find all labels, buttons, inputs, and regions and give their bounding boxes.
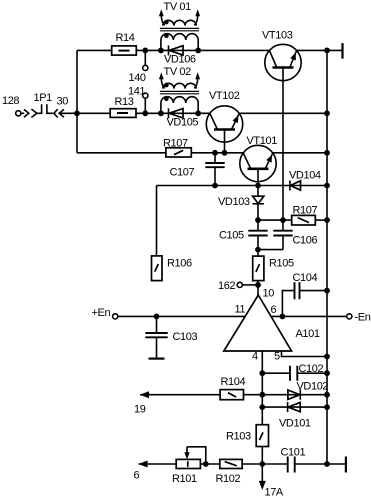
wire C104 right lead: [300, 290, 328, 292]
svg-text:VD104: VD104: [289, 169, 321, 181]
svg-text:140: 140: [129, 72, 146, 84]
resistor R103: [256, 425, 268, 447]
resistor R106: [152, 256, 163, 281]
svg-text:VD101: VD101: [279, 418, 311, 430]
wire 17A drop: [261, 464, 263, 482]
svg-text:VT103: VT103: [262, 30, 293, 42]
svg-text:C107: C107: [170, 166, 195, 178]
wire C107 top lead: [214, 153, 216, 163]
wire R101 to R102: [200, 463, 219, 465]
transformer TV02: [159, 72, 200, 113]
transistor VT102: [206, 106, 242, 153]
potentiometer R101: [176, 447, 200, 469]
wire R107b to rail: [315, 219, 327, 221]
capacitor C106: [273, 231, 292, 236]
node +En terminal: [113, 314, 118, 319]
wire R103 bottom lead: [261, 447, 263, 465]
wire left vertical bus: [76, 50, 78, 152]
svg-text:1P1: 1P1: [34, 92, 53, 104]
svg-text:VT102: VT102: [209, 90, 240, 102]
resistor R14: [112, 46, 137, 55]
wire C106 to R105 node: [258, 249, 283, 251]
resistor R13: [110, 109, 136, 118]
wire VT102 emitter to rail: [239, 112, 327, 114]
wire node 140 stub: [144, 50, 146, 65]
wire node y220 horizontal: [258, 219, 292, 221]
diode VD102: [288, 390, 300, 400]
wire R106 top vertical: [156, 186, 158, 257]
resistor R105: [253, 256, 264, 281]
transformer TV01: [159, 9, 200, 50]
node 141 terminal: [143, 93, 148, 98]
wire R105 bottom to op-amp pin10: [257, 281, 259, 296]
svg-text:5: 5: [274, 351, 280, 363]
wire C101 to bottom-right terminal: [295, 463, 346, 465]
svg-text:R103: R103: [226, 431, 251, 443]
svg-text:VD102: VD102: [297, 381, 329, 393]
diode VD106: [169, 45, 184, 55]
resistor R102: [220, 459, 242, 468]
svg-text:30: 30: [57, 95, 69, 107]
wire right rail: [326, 50, 328, 464]
wire R101 wiper link: [187, 447, 206, 464]
svg-text:VT101: VT101: [247, 135, 278, 147]
node 140 terminal: [143, 65, 148, 70]
capacitor C105: [248, 231, 267, 236]
svg-text:6: 6: [134, 469, 140, 481]
arrow node 19: [140, 391, 149, 398]
wire C107 bottom lead: [214, 167, 216, 185]
svg-text:R104: R104: [221, 376, 246, 388]
wire C106 bottom lead: [282, 236, 284, 250]
svg-text:VD106: VD106: [164, 54, 196, 66]
node -En terminal: [347, 314, 352, 319]
wire R104 through VD102 to rail: [244, 394, 328, 396]
wire C104 left lead: [282, 291, 294, 317]
wire VT103 emitter to top-right terminal: [297, 49, 343, 51]
arrow node 6: [138, 461, 147, 468]
svg-text:+En: +En: [92, 307, 111, 319]
wire top row to R14: [77, 49, 112, 51]
arrow node 17A: [259, 481, 266, 490]
wire C103 bottom lead: [156, 337, 158, 358]
wire corner to R107 left: [77, 152, 166, 154]
svg-text:17A: 17A: [265, 487, 284, 498]
resistor R107 left: [166, 148, 191, 157]
svg-text:TV 02: TV 02: [164, 66, 192, 78]
wire node 141 stub: [144, 98, 146, 113]
wire +En to pin 11: [118, 315, 245, 317]
wire op-amp pin 5 to rail: [282, 351, 328, 357]
wire VD101 row: [262, 406, 327, 408]
svg-text:TV 01: TV 01: [164, 1, 192, 13]
svg-text:10: 10: [263, 287, 275, 299]
wire pin 6 to -En: [272, 315, 347, 317]
diode VD103: [253, 196, 265, 204]
wire node row y185 to rail: [157, 185, 328, 187]
svg-text:C106: C106: [293, 235, 318, 247]
resistor R107 right: [292, 215, 316, 225]
svg-text:C104: C104: [293, 272, 318, 284]
capacitor C104: [295, 282, 300, 299]
svg-text:141: 141: [128, 85, 145, 97]
svg-text:C101: C101: [281, 446, 306, 458]
svg-text:R101: R101: [172, 473, 197, 485]
wire VT101 base to VD103: [257, 169, 259, 196]
wire top row R14 to VT103 collector: [136, 49, 269, 51]
svg-text:128: 128: [2, 95, 19, 107]
wire VD103 to C105: [257, 204, 259, 231]
svg-text:4: 4: [252, 351, 258, 363]
svg-text:R102: R102: [216, 473, 241, 485]
svg-text:6: 6: [271, 304, 277, 316]
transistor VT103: [265, 44, 301, 80]
wire R107 to VT101 collector: [191, 152, 243, 154]
diode VD101: [288, 402, 301, 412]
resistor R104: [220, 390, 243, 400]
wire C102 right lead: [297, 372, 327, 374]
node 162 terminal: [237, 282, 242, 287]
svg-text:VD105: VD105: [167, 117, 199, 129]
svg-text:A101: A101: [296, 328, 320, 340]
svg-text:R107: R107: [293, 205, 318, 217]
wire node 162 stub: [242, 284, 258, 286]
capacitor C103: [145, 333, 167, 337]
svg-text:162: 162: [218, 280, 235, 292]
capacitor C102: [290, 366, 297, 381]
wire C103 top lead: [156, 316, 158, 333]
wire C102 left lead: [262, 372, 290, 374]
terminal bar under C103: [149, 358, 165, 360]
wire arrow 19 to R104: [140, 394, 220, 396]
wire VT101 emitter to rail: [273, 152, 327, 154]
svg-text:VD103: VD103: [218, 196, 250, 208]
wire C105 bottom to R105: [257, 236, 259, 257]
terminal bar top right: [341, 43, 343, 59]
svg-text:11: 11: [235, 303, 246, 315]
svg-text:C102: C102: [299, 363, 324, 375]
wire connector to R13: [59, 112, 110, 114]
svg-text:R105: R105: [269, 258, 294, 270]
svg-text:R13: R13: [115, 96, 134, 108]
svg-text:C103: C103: [173, 331, 198, 343]
transistor VT101: [240, 145, 276, 181]
diode VD104: [290, 181, 301, 191]
svg-text:-En: -En: [355, 312, 371, 324]
svg-text:C105: C105: [219, 230, 244, 242]
op-amp A101: [224, 295, 292, 351]
connector 1P1: [16, 104, 64, 117]
wire R13 to VT102 collector: [136, 112, 210, 114]
capacitor C107: [205, 163, 224, 167]
wire VT103 base column: [282, 81, 284, 231]
svg-text:R106: R106: [167, 258, 192, 270]
wire arrow 6 to R101: [139, 463, 177, 465]
capacitor C101: [288, 457, 295, 473]
svg-text:R107: R107: [163, 137, 188, 149]
wire op-amp pin 4 column: [261, 351, 263, 425]
svg-text:R14: R14: [116, 32, 135, 44]
terminal bar bottom right: [345, 457, 347, 473]
wire R102 to C101: [242, 463, 288, 465]
svg-text:19: 19: [134, 403, 146, 415]
diode VD105: [169, 108, 184, 118]
